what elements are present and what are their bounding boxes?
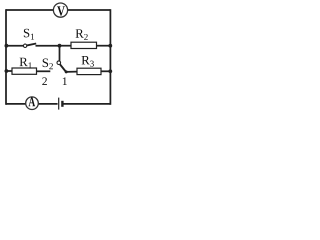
resistor R1: [12, 68, 37, 74]
voltmeter V: [53, 3, 67, 17]
resistor R3: [77, 68, 101, 74]
label S1: [24, 29, 34, 40]
node junction right rail middle row: [108, 69, 112, 73]
node junction top of S2: [58, 44, 62, 48]
node junction right rail top row: [108, 44, 112, 48]
wire bottom-left segment: [6, 103, 58, 105]
node contact 1 of S2: [65, 70, 68, 73]
node junction left rail middle row: [5, 69, 9, 73]
wire R1 to contact 2: [37, 70, 51, 72]
wire top-right segment: [65, 9, 110, 11]
wire contact 1 to R3: [66, 71, 77, 73]
wire left rail: [5, 9, 7, 105]
wire R2 to right rail: [97, 45, 111, 47]
label contact 1: [63, 77, 67, 85]
wire S1 to junction: [36, 45, 60, 47]
label S2: [43, 59, 53, 70]
wire right rail: [109, 9, 111, 105]
wire junction to R2: [60, 45, 72, 47]
battery cell: [59, 98, 63, 110]
ammeter A: [26, 97, 39, 110]
node junction left of S1: [5, 44, 9, 48]
label R1: [20, 58, 32, 69]
wire bottom-right segment: [63, 103, 110, 105]
resistor R2: [71, 42, 97, 48]
label R2: [76, 29, 88, 40]
wire R3 to right rail: [101, 70, 110, 72]
wire middle row left: [6, 70, 12, 72]
switch S1: [23, 44, 36, 48]
wire drop to S2 pivot: [59, 46, 61, 61]
wire top-left segment: [6, 9, 56, 11]
label contact 2: [42, 77, 47, 85]
label R3: [82, 56, 94, 67]
switch S2: [57, 61, 66, 72]
wire S1 row left: [6, 45, 23, 47]
